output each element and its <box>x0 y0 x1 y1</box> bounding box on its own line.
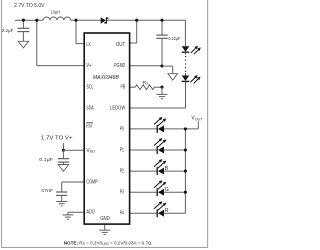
ground (bars) ADO <box>62 214 73 216</box>
wire to OUT pin <box>130 42 137 44</box>
LED P0 white <box>156 125 158 133</box>
wire VOUT riser <box>197 121 199 129</box>
capacitor C4 47nF <box>56 191 67 193</box>
diode D1 cathode bar <box>105 18 108 23</box>
svg-text:1.7V TO V+: 1.7V TO V+ <box>41 135 73 141</box>
LED P1 white <box>156 146 158 154</box>
svg-text:ADO: ADO <box>86 210 94 216</box>
wire LED P1 anode to bus <box>164 149 185 151</box>
svg-text:47nF: 47nF <box>41 188 53 194</box>
ground (triangle) C3 <box>58 165 69 172</box>
svg-text:P0: P0 <box>120 126 124 132</box>
wire chain bottom segment <box>185 82 187 108</box>
junction rail/LX <box>74 19 77 22</box>
wire P3 pin to LED <box>130 191 158 193</box>
capacitor C1 2.2uF <box>17 27 29 29</box>
svg-text:PGND: PGND <box>114 63 125 69</box>
svg-text:LX: LX <box>86 42 91 48</box>
light arrows D3 <box>191 77 196 82</box>
svg-text:SDA: SDA <box>86 105 94 111</box>
LED white D2 <box>182 46 190 51</box>
wire to V+ pin <box>37 65 84 67</box>
svg-text:P2: P2 <box>120 169 124 175</box>
wire GND pin <box>104 224 106 230</box>
light arrows D2 <box>191 48 196 53</box>
junction bus P2 <box>184 170 187 173</box>
wire P1 pin to LED <box>130 149 158 151</box>
wire rail diode-to-chain <box>107 19 186 21</box>
junction rail/C2 <box>160 19 163 22</box>
LED white D3 <box>182 76 190 81</box>
capacitor C2 0.22uF <box>156 34 167 36</box>
junction FB node <box>160 86 163 89</box>
wire resistor to FB node <box>154 86 162 88</box>
inductor L1 10uH <box>43 17 71 20</box>
wire VDD feed <box>62 143 64 150</box>
svg-text:V+: V+ <box>86 63 91 69</box>
LED P2 (B) <box>156 167 158 175</box>
junction rail/OUT <box>135 19 138 22</box>
svg-text:P4: P4 <box>120 211 124 217</box>
wire LED P4 anode to bus <box>164 212 185 214</box>
op-amp U1 MAX6948B (IC box) <box>84 33 129 224</box>
wire ADO pin <box>68 211 84 213</box>
wire chain to LEDGW pin <box>130 107 186 109</box>
wire rail inductor-to-diode <box>71 19 101 21</box>
resistor RS <box>135 85 154 90</box>
junction PGND/C2 <box>160 64 163 67</box>
svg-text:2.7V TO 5.0V: 2.7V TO 5.0V <box>14 3 45 9</box>
svg-text:B: B <box>165 166 169 172</box>
junction VDD node <box>62 149 65 152</box>
wire PGND elbow <box>162 65 173 67</box>
wire chain top segment <box>184 20 186 46</box>
svg-text:SCL: SCL <box>86 85 93 91</box>
wire cap C2 branch <box>161 20 163 35</box>
svg-text:FB: FB <box>121 85 126 91</box>
wire PGND pin to node <box>130 65 162 67</box>
wire FB pin to resistor <box>130 86 136 88</box>
svg-text:GND: GND <box>100 216 110 222</box>
diode D1 (schottky) <box>101 17 106 23</box>
svg-text:RST: RST <box>86 124 93 130</box>
LED P4 (R) <box>156 209 158 217</box>
svg-text:2.2μF: 2.2μF <box>2 28 14 34</box>
ground (bars) FB <box>157 93 168 95</box>
junction bus P3 <box>184 191 187 194</box>
wire OUT riser <box>136 20 138 43</box>
junction rail/C1 <box>22 19 25 22</box>
wire chain dotted (more LEDs) <box>185 57 187 72</box>
junction rail/V+ <box>35 19 38 22</box>
svg-text:OUT: OUT <box>116 42 126 48</box>
ground (bars) GND <box>99 229 110 231</box>
wire LED P3 anode to bus <box>164 191 185 193</box>
svg-text:P1: P1 <box>120 148 124 154</box>
wire V+ riser <box>36 20 38 65</box>
junction bus P1 <box>184 148 187 151</box>
ground (bars) C4 <box>56 201 67 203</box>
wire LX riser <box>75 20 77 43</box>
wire LED P2 anode to bus <box>164 170 185 172</box>
svg-text:G: G <box>165 187 169 193</box>
svg-text:0.1μF: 0.1μF <box>39 157 53 163</box>
ground (triangle) PGND <box>168 74 178 80</box>
capacitor C3 0.1uF <box>58 158 69 160</box>
svg-text:R: R <box>165 208 169 214</box>
wire LED P0 anode to bus <box>164 128 198 130</box>
wire COMP pin <box>62 181 84 183</box>
svg-text:10μH: 10μH <box>51 10 61 16</box>
svg-text:NOTE: RS = 0.2V/ILED = 0.2V/0.: NOTE: RS = 0.2V/ILED = 0.2V/0.03A = 6.7Ω <box>64 240 152 246</box>
svg-text:0.22μF: 0.22μF <box>168 36 180 42</box>
wire input rail left segment <box>15 19 43 21</box>
svg-text:MAX6948B: MAX6948B <box>93 75 119 81</box>
svg-text:COMP: COMP <box>86 180 98 186</box>
svg-text:LEDGW: LEDGW <box>110 105 126 111</box>
svg-text:P3: P3 <box>120 190 124 196</box>
ground (triangle) C1 <box>18 41 29 48</box>
wire P0 pin to LED <box>130 128 158 130</box>
wire to VDD pin <box>63 149 84 151</box>
wire P4 pin to LED <box>130 212 158 214</box>
junction bus P0 <box>184 127 187 130</box>
wire cap C1 branch <box>22 20 24 28</box>
LED P3 (G) <box>156 188 158 196</box>
wire to LX pin <box>76 43 84 45</box>
wire P2 pin to LED <box>130 170 158 172</box>
wire VOUT bus vertical <box>184 129 186 213</box>
